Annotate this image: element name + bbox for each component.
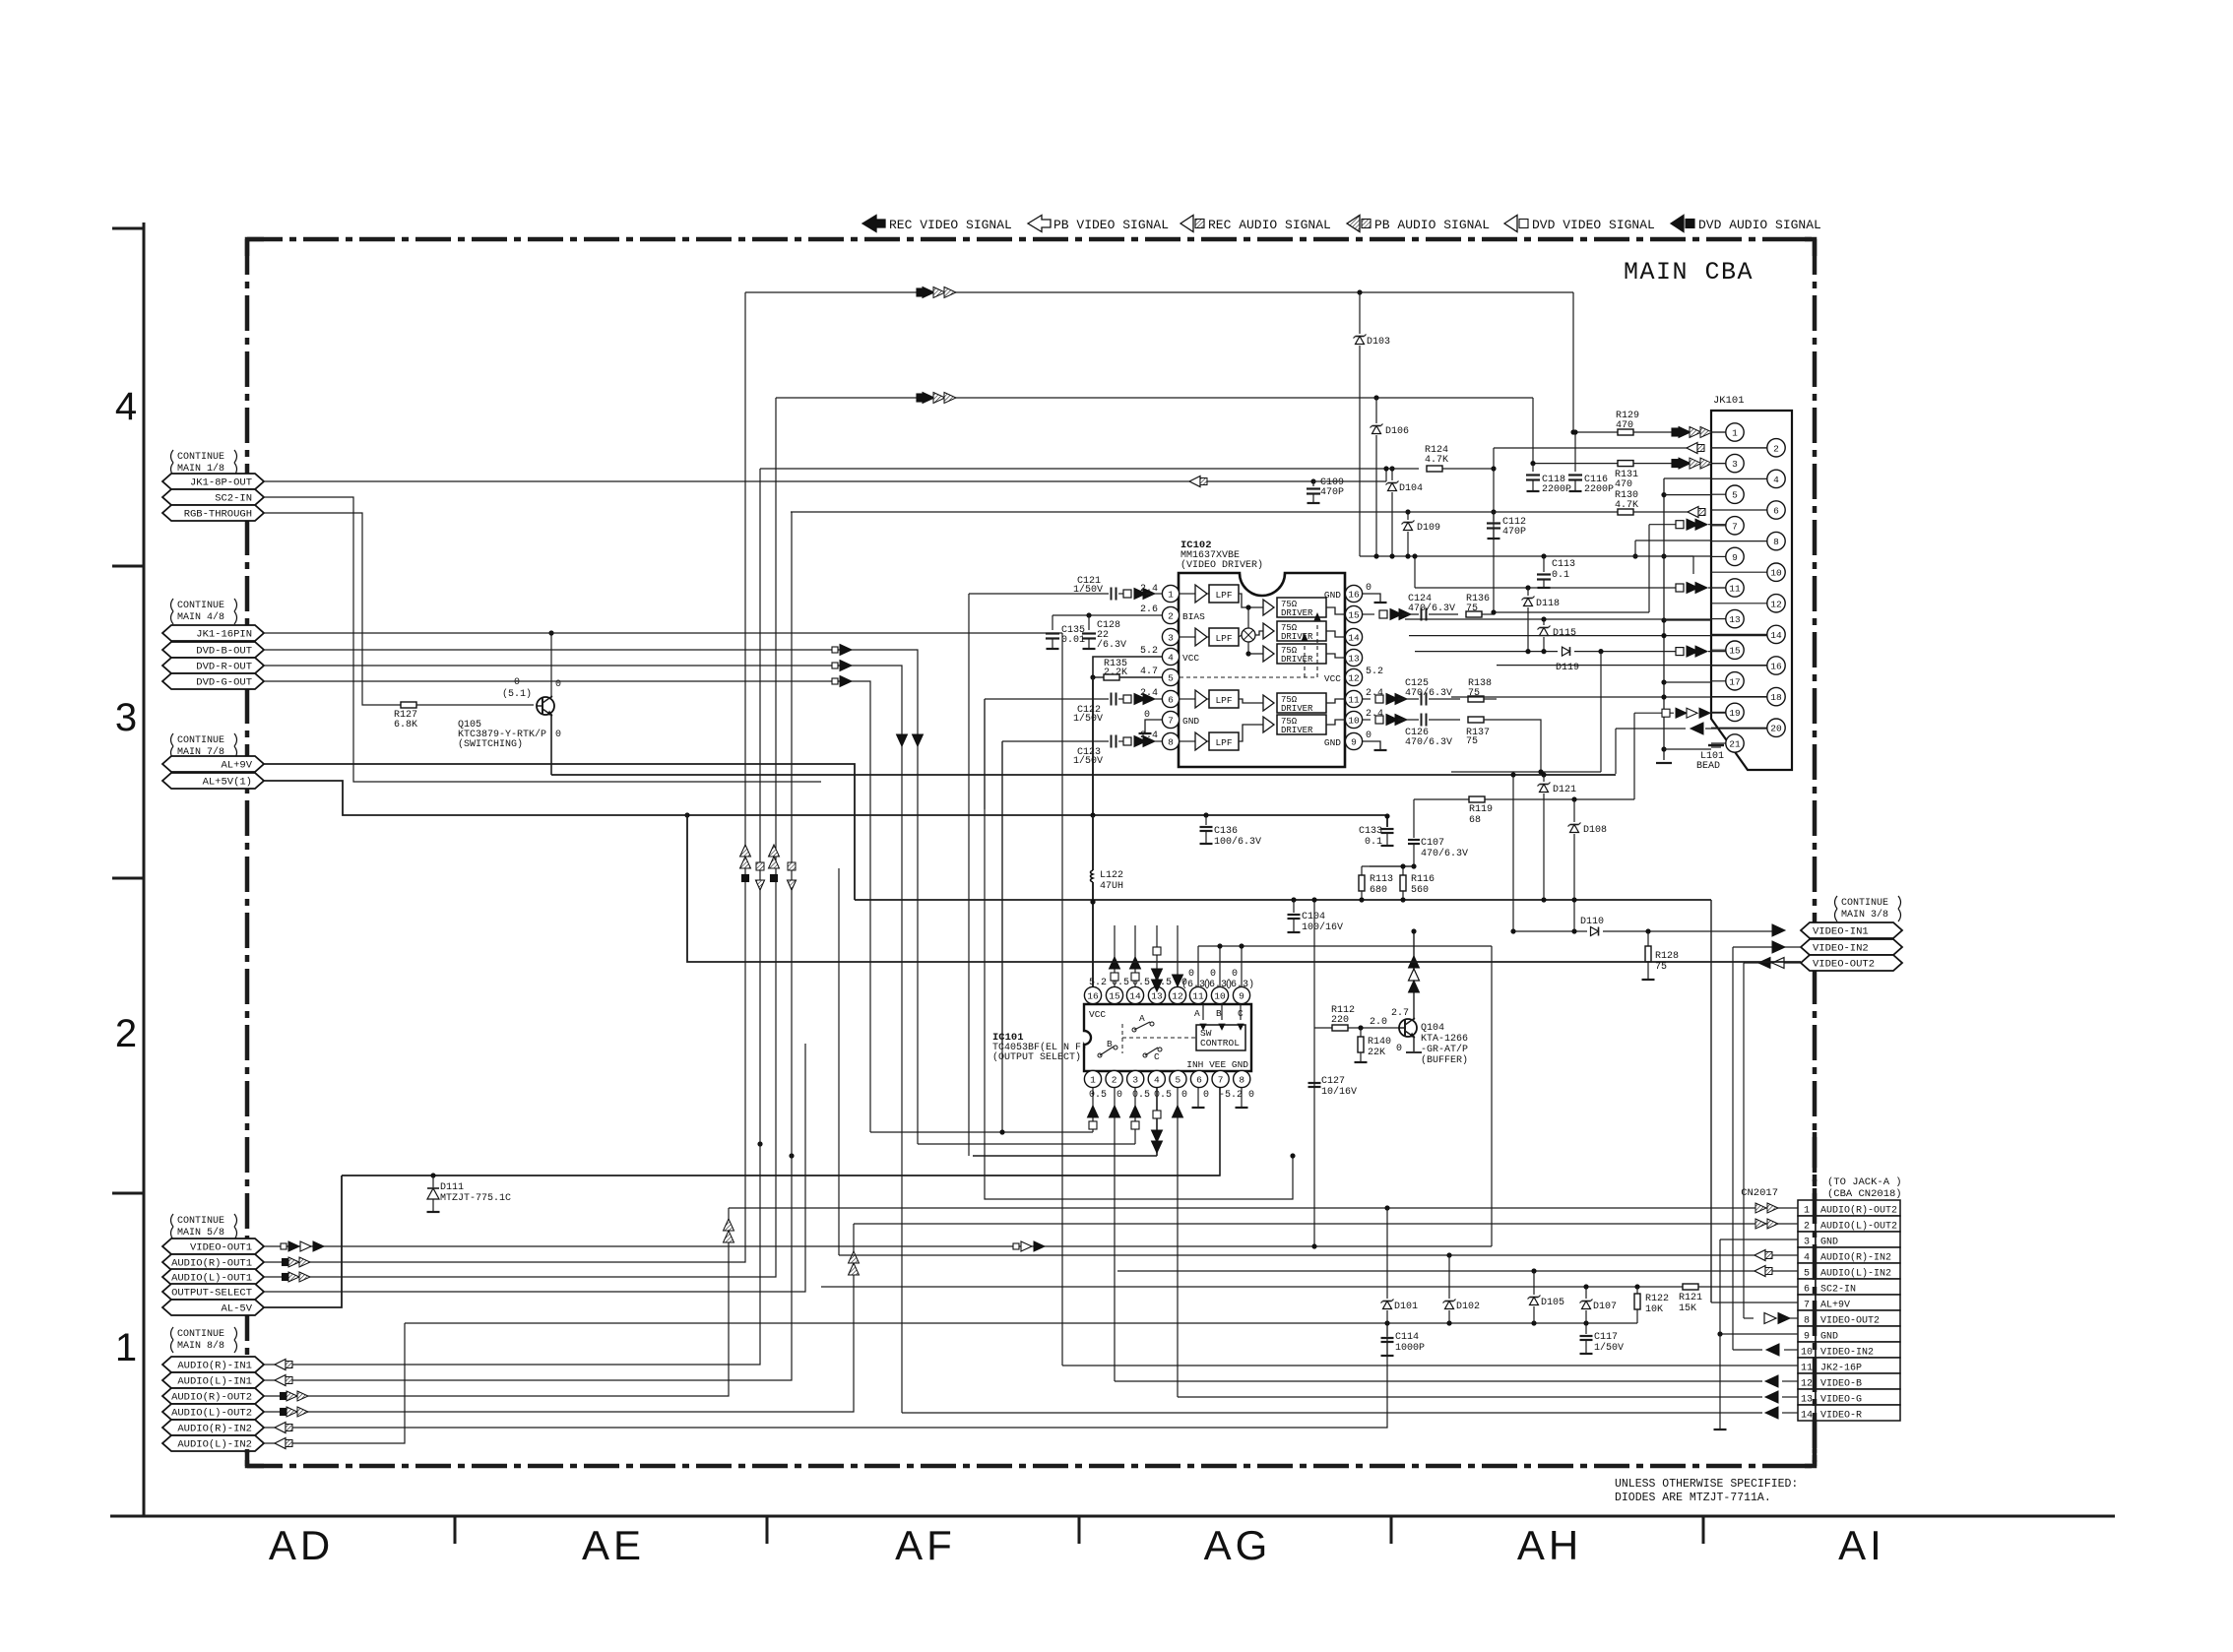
svg-text:C136: C136 — [1214, 826, 1238, 837]
svg-text:6: 6 — [1804, 1285, 1810, 1296]
svg-text:0: 0 — [1366, 583, 1372, 594]
junction pin15-1626 — [1598, 649, 1603, 654]
wire video-in2 — [1733, 946, 1801, 948]
svg-text:15: 15 — [1348, 609, 1360, 620]
svg-text:13: 13 — [1348, 653, 1360, 664]
wire pin16 run — [1497, 665, 1767, 667]
node AL+9V — [162, 756, 264, 772]
IC102 mixer — [1242, 628, 1255, 642]
signal arrows IC101 pin13 — [1156, 925, 1158, 986]
svg-text:OUTPUT-SELECT: OUTPUT-SELECT — [171, 1288, 252, 1300]
wire y565 right end — [1692, 556, 1694, 574]
svg-text:AUDIO(R)-OUT2: AUDIO(R)-OUT2 — [1820, 1205, 1897, 1217]
wire pin20 vertical — [1615, 729, 1617, 774]
svg-text:C: C — [1154, 1051, 1160, 1062]
svg-text:VIDEO-IN1: VIDEO-IN1 — [1813, 926, 1869, 938]
svg-text:19: 19 — [1729, 708, 1741, 719]
resistor R129 wire — [1573, 431, 1618, 433]
svg-text:1/50V: 1/50V — [1073, 713, 1103, 725]
junction C127 top — [1311, 897, 1316, 902]
svg-text:470/6.3V: 470/6.3V — [1405, 687, 1452, 699]
svg-text:MTZJT-775.1C: MTZJT-775.1C — [440, 1193, 511, 1204]
wire CN row14 — [902, 1412, 1762, 1414]
IC101 SW CONTROL box — [1196, 1025, 1245, 1050]
svg-text:SC2-IN: SC2-IN — [215, 493, 252, 505]
junction D104 top — [1389, 466, 1394, 471]
svg-text:LPF: LPF — [1215, 633, 1232, 644]
transistor Q105 — [537, 697, 554, 715]
IC101 pin 1 — [1084, 1070, 1101, 1087]
IC102 input amp pin6 — [1180, 698, 1195, 700]
node AUDIO(R)-IN1 — [162, 1357, 264, 1372]
junction C109 — [1310, 478, 1315, 483]
svg-text:DVD-B-OUT: DVD-B-OUT — [196, 646, 252, 658]
svg-text:CONTROL: CONTROL — [1200, 1038, 1240, 1048]
legend REC AUDIO SIGNAL symbol — [1180, 216, 1193, 232]
IC102 pin 10 — [1345, 711, 1362, 728]
signal arrows 757 v — [740, 845, 751, 857]
wire JK101 pin5 — [1664, 494, 1711, 496]
svg-text:11: 11 — [1348, 694, 1360, 705]
resistor R135 — [1093, 676, 1104, 678]
wire R131 run — [1533, 463, 1618, 465]
svg-text:4: 4 — [1168, 652, 1174, 663]
main CBA border overdraw right — [1813, 1132, 1818, 1466]
signal arrow DVD-B — [832, 647, 838, 653]
svg-text:UNLESS OTHERWISE SPECIFIED:: UNLESS OTHERWISE SPECIFIED: — [1615, 1478, 1798, 1491]
wire vertical pin1 net — [968, 594, 970, 1156]
junction R135 — [1090, 674, 1095, 679]
capacitor C104 — [1291, 897, 1296, 902]
svg-text:0: 0 — [1181, 1090, 1187, 1101]
wire IC101 pin5 out — [1177, 1088, 1179, 1397]
svg-text:10/16V: 10/16V — [1321, 1086, 1357, 1098]
svg-text:75: 75 — [1466, 736, 1478, 747]
svg-text:2.0: 2.0 — [1370, 1017, 1387, 1028]
wire pin19 run — [1634, 712, 1674, 714]
node AUDIO(L)-OUT2 — [162, 1404, 264, 1420]
connector JK101 pin 21 — [1711, 742, 1726, 744]
svg-text:7: 7 — [1804, 1301, 1810, 1311]
connector JK101 pin 15 — [1711, 649, 1726, 651]
junction C128 — [1086, 612, 1091, 617]
capacitor C107 — [1408, 839, 1420, 841]
IC101 pin 2 — [1106, 1070, 1122, 1087]
signal arrow pin20 — [1691, 723, 1703, 734]
diode D103 — [1359, 292, 1361, 334]
junction 828 west — [684, 812, 689, 817]
node AUDIO(L)-IN2 — [162, 1435, 264, 1451]
node DVD-R-OUT — [162, 658, 264, 673]
svg-text:1: 1 — [1168, 589, 1174, 600]
svg-text:8: 8 — [1168, 736, 1174, 747]
svg-text:CONTINUE: CONTINUE — [177, 1329, 224, 1340]
svg-text:11: 11 — [1192, 991, 1204, 1002]
wire AUDIO(R)-IN2 run — [264, 1323, 1387, 1428]
svg-text:10K: 10K — [1645, 1304, 1663, 1315]
IC101 pin 4 — [1148, 1070, 1165, 1087]
node VIDEO-OUT2 — [1801, 955, 1902, 971]
junction JK101 bus — [1661, 617, 1666, 622]
op-amp U IC101 outline — [1084, 1004, 1251, 1071]
connector JK101 pin 19 — [1711, 711, 1726, 713]
svg-text:4: 4 — [1804, 1253, 1810, 1264]
svg-text:DVD AUDIO SIGNAL: DVD AUDIO SIGNAL — [1698, 218, 1821, 232]
node JK1-16PIN — [162, 625, 264, 641]
connector JK101 pin 20 — [1711, 727, 1767, 729]
svg-text:470P: 470P — [1320, 487, 1344, 498]
wire pin6 feed vert — [985, 699, 1293, 1199]
resistor R128 — [1647, 931, 1649, 946]
node DVD-G-OUT — [162, 673, 264, 689]
signal arrow AUDIO(L)-IN2 — [275, 1438, 286, 1449]
junction 804 pin4 — [789, 1153, 794, 1158]
wire AUDIO(L)-OUT1 run — [264, 398, 776, 1277]
resistor R116 — [1402, 866, 1404, 875]
IC102 pin 12 — [1345, 668, 1362, 685]
svg-text:BIAS: BIAS — [1182, 611, 1205, 622]
IC102 75ohm driver 4 — [1263, 695, 1274, 711]
node RGB-THROUGH — [162, 505, 264, 521]
wire JK101 pin9 — [1664, 555, 1711, 557]
IC101 control arrows — [1202, 1004, 1204, 1020]
wire 1626 vertical — [1600, 652, 1602, 772]
wire 1626 left — [1451, 771, 1601, 773]
wire CN row12 — [1115, 1380, 1762, 1382]
signal arrow CN row12 — [1765, 1375, 1778, 1387]
capacitor C118 — [1532, 464, 1534, 472]
wire JK101 pin21 via L101 — [1664, 748, 1711, 750]
IC101 pin 3 — [1127, 1070, 1144, 1087]
signal arrow into IC102 pin6 — [1123, 695, 1131, 703]
junction 772 pin3 — [757, 1141, 762, 1146]
wire IC102 pin1 input — [969, 593, 1109, 595]
IC102 75ohm driver 2 — [1263, 623, 1274, 639]
IC101 pin 7 — [1212, 1070, 1229, 1087]
resistor R122 — [1636, 1287, 1638, 1294]
wire AL+5V1 run — [264, 781, 1801, 962]
junction D109 top — [1405, 509, 1410, 514]
IC101 pin 16 — [1084, 986, 1101, 1003]
svg-text:9: 9 — [1351, 736, 1357, 747]
svg-text:AUDIO(R)-IN1: AUDIO(R)-IN1 — [177, 1361, 252, 1372]
connector CN2017 pin 13 VIDEO-G — [1798, 1389, 1816, 1405]
svg-text:47UH: 47UH — [1100, 881, 1123, 892]
wire bus914 down right — [1710, 900, 1712, 1303]
svg-text:8: 8 — [1804, 1316, 1810, 1327]
svg-text:17: 17 — [1729, 676, 1740, 687]
wire pin2 jog — [1494, 447, 1703, 449]
connector CN2017 pin 12 VIDEO-B — [1798, 1373, 1816, 1389]
svg-text:10: 10 — [1801, 1348, 1813, 1359]
signal arrows IC101 pin4b — [1153, 1111, 1161, 1118]
svg-text:4.7K: 4.7K — [1615, 500, 1638, 511]
frame col tick 2 — [766, 1516, 769, 1544]
svg-text:JK2-16P: JK2-16P — [1820, 1364, 1862, 1374]
svg-text:2: 2 — [1773, 443, 1779, 454]
node VIDEO-IN1 — [1801, 922, 1902, 938]
IC102 LPF pin1 — [1207, 593, 1209, 595]
border corner TL — [247, 239, 264, 256]
junction D102 top — [1446, 1252, 1451, 1257]
wire video-in2 vert — [1732, 947, 1734, 1350]
svg-text:16: 16 — [1770, 662, 1782, 672]
capacitor C116 — [1574, 432, 1576, 472]
svg-text:75: 75 — [1466, 604, 1478, 614]
node AUDIO(R)-IN2 — [162, 1420, 264, 1435]
wire 489 to R124 — [1313, 480, 1386, 482]
svg-text:470/6.3V: 470/6.3V — [1405, 736, 1452, 748]
frame row tick r3 — [112, 565, 144, 568]
signal arrows CN row1 — [1755, 1203, 1766, 1213]
border corner TR — [1798, 239, 1815, 256]
signal arrows IC101 pin15 — [1114, 925, 1116, 986]
wire video-in1 row — [1513, 930, 1587, 932]
svg-text:DRIVER: DRIVER — [1281, 726, 1313, 735]
svg-text:470/6.3V: 470/6.3V — [1408, 603, 1455, 614]
svg-text:0.1: 0.1 — [1552, 570, 1569, 581]
svg-text:7: 7 — [1732, 521, 1738, 532]
svg-text:AL-5V: AL-5V — [221, 1303, 252, 1315]
signal arrow 772 v — [756, 880, 765, 890]
svg-text:(VIDEO DRIVER): (VIDEO DRIVER) — [1180, 559, 1263, 571]
frame col tick 3 — [1078, 1516, 1081, 1544]
svg-text:2.2K: 2.2K — [1104, 667, 1127, 678]
wire y565 run — [1360, 555, 1693, 557]
svg-text:D101: D101 — [1394, 1302, 1418, 1312]
svg-text:560: 560 — [1411, 885, 1429, 896]
svg-text:JK1-8P-OUT: JK1-8P-OUT — [190, 477, 252, 489]
junction R136-out — [1491, 609, 1496, 614]
ground IC102 pin7 — [1145, 720, 1162, 733]
signal arrow CN row4 — [1754, 1250, 1765, 1261]
svg-text:7: 7 — [1168, 715, 1174, 726]
wire R130 run — [791, 511, 1618, 513]
signal arrow hatch pin6 — [1688, 507, 1698, 518]
signal arrow pin15 — [1676, 648, 1684, 656]
svg-text:9: 9 — [1239, 991, 1244, 1002]
signal arrows IC101 pin2b — [1110, 1106, 1120, 1117]
wire pin19 vertical — [1633, 713, 1635, 799]
svg-text:AH: AH — [1517, 1522, 1582, 1568]
svg-text:D104: D104 — [1399, 483, 1423, 494]
signal arrows IC101 pin1b — [1088, 1106, 1099, 1117]
wire pin14 run — [1409, 635, 1767, 637]
connector CN2017 pin 9 GND — [1798, 1326, 1816, 1342]
legend PB VIDEO SIGNAL symbol — [1028, 216, 1051, 232]
IC102 pin 11 — [1345, 690, 1362, 707]
connector JK101 pin 9 — [1711, 555, 1726, 557]
svg-text:12: 12 — [1770, 599, 1782, 609]
signal arrow CN row14 — [1765, 1407, 1778, 1419]
svg-text:(CBA CN2018): (CBA CN2018) — [1827, 1188, 1902, 1200]
wire IC101 pin16 vcc — [1092, 902, 1094, 986]
svg-text:A: A — [1194, 1008, 1200, 1019]
svg-text:D108: D108 — [1583, 825, 1607, 836]
svg-text:0.01: 0.01 — [1061, 635, 1085, 646]
svg-text:20: 20 — [1770, 724, 1782, 734]
ground IC102 pin9 — [1363, 741, 1380, 750]
legend REC VIDEO SIGNAL symbol — [862, 216, 885, 232]
signal arrows IC101 pin14 — [1134, 925, 1136, 986]
signal arrow DVD-G — [832, 678, 838, 684]
svg-text:C113: C113 — [1552, 559, 1575, 570]
legend DVD VIDEO SIGNAL symbol — [1504, 216, 1517, 232]
svg-text:D118: D118 — [1536, 599, 1560, 609]
node AUDIO(L)-OUT1 — [162, 1269, 264, 1285]
svg-text:D107: D107 — [1593, 1302, 1617, 1312]
svg-text:D106: D106 — [1385, 426, 1409, 437]
svg-text:CN2017: CN2017 — [1741, 1187, 1778, 1199]
svg-text:BEAD: BEAD — [1696, 761, 1720, 772]
svg-text:D103: D103 — [1367, 337, 1390, 348]
svg-text:14: 14 — [1129, 991, 1141, 1002]
wire diode bus 1344 — [405, 1322, 1637, 1324]
signal arrows AUDIO(L)-OUT2 — [281, 1409, 287, 1416]
capacitor C128 — [1088, 615, 1090, 630]
connector CN2017 pin 3 GND — [1798, 1232, 1816, 1247]
svg-text:-5.2: -5.2 — [1219, 1090, 1243, 1101]
junction pin16 — [1090, 899, 1095, 904]
svg-text:LPF: LPF — [1215, 737, 1232, 748]
svg-text:PB VIDEO SIGNAL: PB VIDEO SIGNAL — [1053, 218, 1169, 232]
op-amp U IC102 outline — [1179, 573, 1345, 767]
svg-text:10: 10 — [1214, 991, 1226, 1002]
svg-text:VCC: VCC — [1089, 1009, 1106, 1020]
wire IC102 pin4 VCC — [1093, 657, 1162, 677]
border corner BR — [1798, 1449, 1815, 1466]
wire IC102 pin8 input — [1002, 740, 1109, 742]
wire IC101 pin7 out — [342, 1088, 1220, 1175]
svg-text:10: 10 — [1770, 568, 1782, 579]
svg-text:CONTINUE: CONTINUE — [1841, 898, 1888, 909]
svg-text:3: 3 — [1132, 1075, 1138, 1086]
IC102 LPF pin8 — [1207, 740, 1209, 742]
IC102 pin 7 — [1162, 711, 1179, 728]
svg-text:C117: C117 — [1594, 1332, 1618, 1343]
wire pin7 net — [1649, 524, 1677, 526]
svg-text:AUDIO(R)-IN2: AUDIO(R)-IN2 — [177, 1424, 252, 1435]
junction R129 — [1570, 429, 1575, 434]
IC102 75ohm driver 3 — [1263, 646, 1274, 662]
svg-text:0: 0 — [1116, 1090, 1122, 1101]
svg-text:5.2: 5.2 — [1089, 978, 1107, 988]
capacitor C124 — [1421, 608, 1423, 621]
svg-text:1: 1 — [1732, 428, 1738, 439]
svg-text:C133: C133 — [1359, 826, 1382, 837]
svg-text:5: 5 — [1168, 672, 1174, 683]
junction D118 bottom — [1525, 649, 1530, 654]
junction bus1344 — [1446, 1320, 1451, 1325]
capacitor C133 — [1381, 828, 1394, 830]
junction R137-784 — [1538, 769, 1543, 774]
svg-text:9: 9 — [1804, 1332, 1810, 1343]
wire run2 to pin3 — [1532, 398, 1534, 464]
connector JK101 pin 3 — [1711, 463, 1726, 465]
IC102 wire driver3 out — [1326, 654, 1345, 658]
connector CN2017 pin 4 AUDIO(R)-IN2 — [1798, 1247, 1816, 1263]
junction D105 top — [1531, 1268, 1536, 1273]
wire vertical pin8 net — [1001, 741, 1003, 1044]
svg-text:AUDIO(L)-OUT2: AUDIO(L)-OUT2 — [1820, 1221, 1897, 1233]
svg-text:VIDEO-IN2: VIDEO-IN2 — [1813, 943, 1869, 955]
IC102 pin 2 — [1162, 606, 1179, 623]
connector CN2017 pin 7 AL+9V — [1798, 1295, 1816, 1310]
resistor R130 — [1618, 509, 1633, 515]
signal arrows VIDEO-OUT1 b — [1013, 1243, 1019, 1249]
svg-text:0: 0 — [1396, 1044, 1402, 1054]
svg-text:/6.3V: /6.3V — [1097, 639, 1126, 651]
frame col tick 5 — [1702, 1516, 1705, 1544]
transistor Q104 — [1399, 1019, 1417, 1037]
connector CN2017 pin 6 SC2-IN — [1798, 1279, 1816, 1295]
junction C116 top — [1572, 429, 1577, 434]
svg-text:1/50V: 1/50V — [1594, 1342, 1624, 1354]
svg-text:AUDIO(L)-IN1: AUDIO(L)-IN1 — [177, 1376, 252, 1388]
svg-text:DVD-R-OUT: DVD-R-OUT — [196, 662, 252, 673]
svg-text:6: 6 — [1196, 1075, 1202, 1086]
junction 1018 — [999, 1129, 1004, 1134]
svg-text:21: 21 — [1729, 739, 1741, 750]
svg-text:2: 2 — [1168, 610, 1174, 621]
svg-text:MAIN 4/8: MAIN 4/8 — [177, 611, 224, 623]
connector CN2017 pin 2 AUDIO(L)-OUT2 — [1798, 1216, 1816, 1232]
svg-text:DRIVER: DRIVER — [1281, 608, 1313, 618]
wire IC101 pin1 out — [1092, 1088, 1094, 1132]
connector CN2017 pin 8 VIDEO-OUT2 — [1798, 1310, 1816, 1326]
wire node1517 — [1493, 448, 1495, 614]
wire L122 net down — [1092, 677, 1094, 815]
svg-text:D102: D102 — [1456, 1302, 1480, 1312]
node AL-5V — [162, 1300, 264, 1315]
junction y565 C113 — [1541, 553, 1546, 558]
IC102 wire lpf4-driver5 — [1239, 725, 1263, 741]
svg-text:VCC: VCC — [1324, 673, 1341, 684]
svg-text:AUDIO(L)-IN2: AUDIO(L)-IN2 — [1820, 1268, 1891, 1280]
signal arrows DVD-B v — [913, 734, 924, 746]
wire pin15 run — [1415, 651, 1558, 653]
wire IC101 pin8 stub — [1241, 1088, 1243, 1107]
svg-text:14: 14 — [1770, 630, 1782, 641]
junction run1 D103 — [1357, 289, 1362, 294]
wire SC2-IN run — [264, 497, 821, 782]
svg-text:16: 16 — [1348, 589, 1360, 600]
svg-text:AL+9V: AL+9V — [221, 760, 252, 772]
wire top run1 — [745, 291, 1573, 293]
junction 1313 — [1290, 1153, 1295, 1158]
svg-text:4: 4 — [1773, 475, 1779, 485]
wire CN row7 feed — [1711, 1302, 1798, 1303]
resistor R136 — [1466, 611, 1482, 617]
junction D121 — [1541, 772, 1546, 777]
inductor L122 — [1092, 815, 1094, 870]
wire DVD-R-OUT run — [264, 666, 902, 1413]
svg-text:5: 5 — [1804, 1269, 1810, 1280]
svg-text:VIDEO-G: VIDEO-G — [1820, 1395, 1862, 1406]
svg-text:470: 470 — [1616, 420, 1633, 431]
resistor R140 — [1360, 1028, 1362, 1037]
IC102 LPF pin3 — [1207, 636, 1209, 638]
svg-text:C114: C114 — [1395, 1332, 1419, 1343]
svg-text:12: 12 — [1348, 672, 1360, 683]
wire Q104 base row — [1314, 1027, 1332, 1029]
diode D106 — [1375, 398, 1377, 423]
IC102 wire lpf2-mixer — [1239, 635, 1242, 637]
IC102 pin 1 — [1162, 585, 1179, 602]
IC102 wire driver5 out — [1326, 720, 1345, 725]
svg-text:10: 10 — [1348, 715, 1360, 726]
svg-text:13: 13 — [1729, 614, 1741, 625]
